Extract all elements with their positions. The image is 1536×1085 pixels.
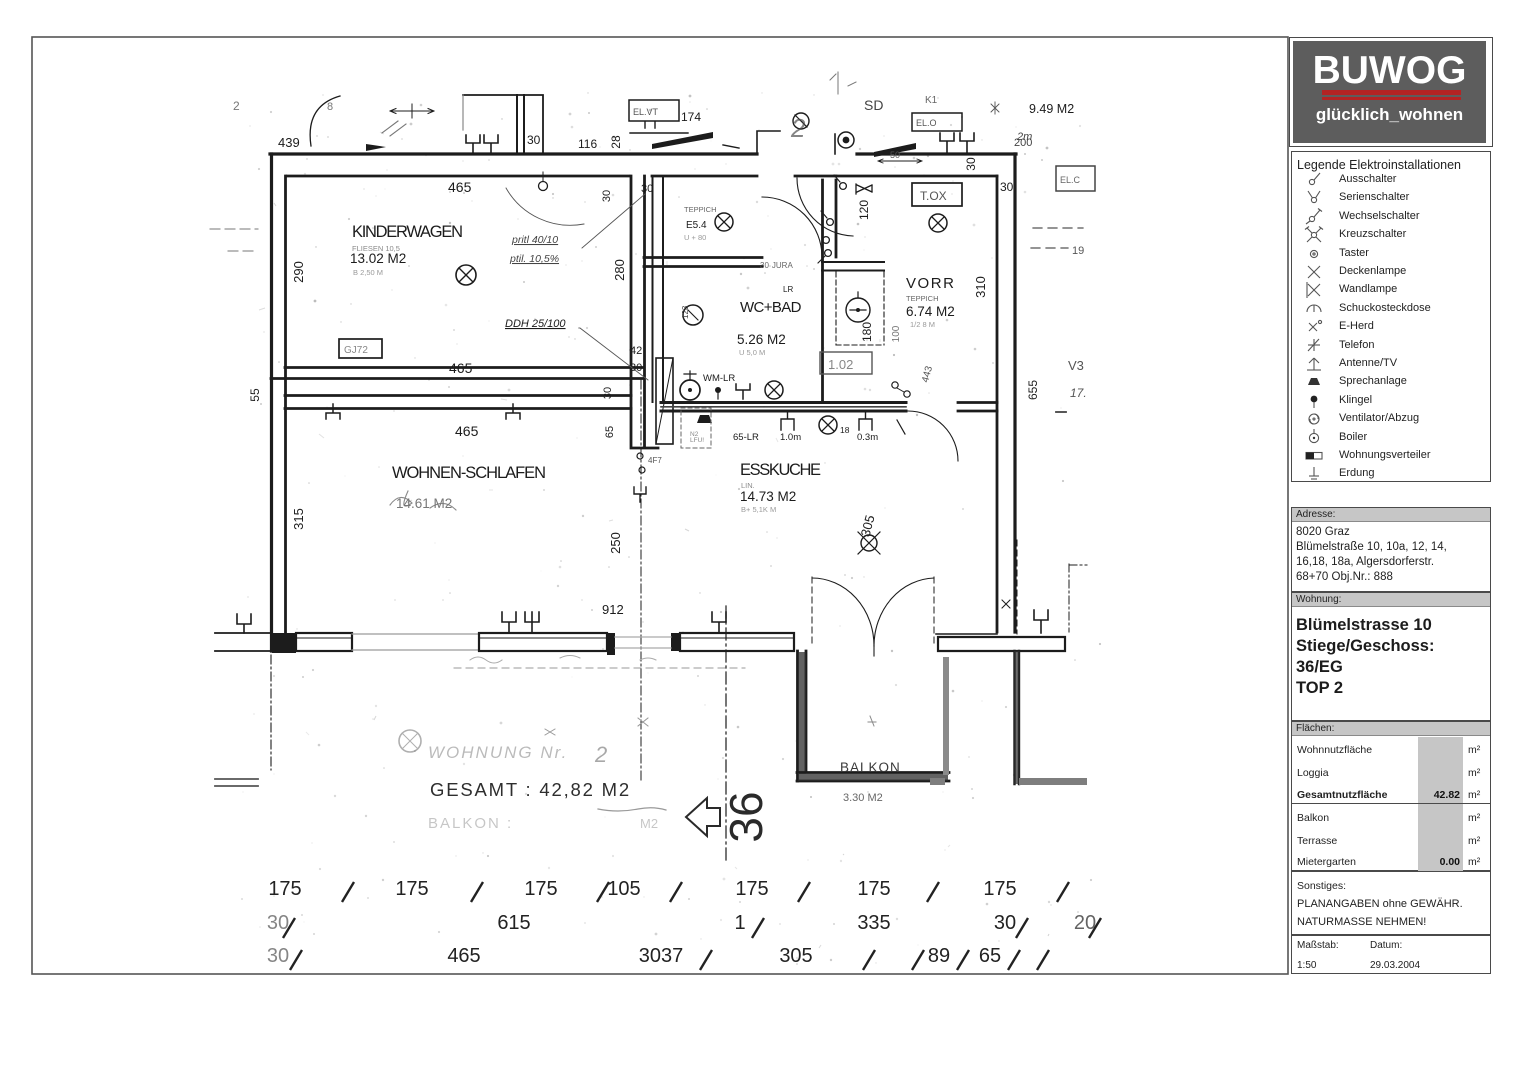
- svg-text:WM-LR: WM-LR: [703, 373, 735, 384]
- ceiling lamp corridor: [715, 213, 733, 231]
- switch chain c2: [821, 211, 833, 225]
- door arc top-left corridor: [310, 96, 340, 146]
- radiator top wall b: [484, 135, 498, 153]
- wire wc-vorr wall: [823, 180, 837, 402]
- svg-text:30: 30: [994, 912, 1016, 934]
- slash mark below kitchen door: [897, 420, 905, 434]
- faint mark left of stamp: [545, 729, 555, 735]
- svg-text:174: 174: [681, 110, 701, 124]
- wire kitchen wall right of door: [958, 403, 997, 412]
- svg-text:U 5,0 M: U 5,0 M: [739, 348, 765, 357]
- slash r3 s5: [957, 950, 969, 970]
- svg-text:250: 250: [608, 532, 623, 554]
- svg-text:200: 200: [1014, 137, 1032, 149]
- dashed top of right sill: [1016, 540, 1018, 634]
- svg-text:1.02: 1.02: [828, 357, 853, 372]
- sidebar: flaechen box: [1291, 721, 1491, 871]
- svg-text:2: 2: [594, 742, 607, 767]
- ddh pointer line: [580, 328, 648, 380]
- kinderwagen small box: [339, 339, 382, 358]
- balcony bottom wall: [797, 773, 949, 782]
- wire top outer wall left segment: [270, 152, 757, 155]
- bracket 1.0m: [781, 412, 794, 430]
- bottom right sill top line: [936, 633, 997, 635]
- svg-text:335: 335: [857, 912, 890, 934]
- svg-text:WC+BAD: WC+BAD: [740, 299, 802, 316]
- svg-text:1/2 8 M: 1/2 8 M: [910, 320, 935, 329]
- radiator bottom right: [1034, 610, 1048, 633]
- svg-text:65: 65: [979, 945, 1001, 967]
- balcony right wall grey: [943, 657, 949, 775]
- wire right outer wall: [1013, 154, 1016, 632]
- radiator window mid b: [525, 612, 539, 633]
- switch chain c3: [823, 237, 830, 244]
- scribbles above nook: [830, 72, 856, 94]
- svg-text:465: 465: [447, 945, 480, 967]
- slash r3 s3: [863, 950, 875, 970]
- ceiling lamp on kitchen wall: [765, 381, 783, 399]
- small dim under wedge: [878, 159, 922, 163]
- svg-text:310: 310: [973, 276, 988, 298]
- svg-text:8: 8: [327, 101, 333, 113]
- svg-text:3.30 M2: 3.30 M2: [843, 792, 883, 804]
- svg-text:30: 30: [964, 157, 978, 171]
- slash r1 s5: [798, 882, 810, 902]
- wire vorr niche dashed sides: [836, 272, 884, 345]
- svg-text:5.26 M2: 5.26 M2: [737, 332, 786, 347]
- svg-text:2: 2: [790, 113, 806, 143]
- svg-text:175: 175: [268, 878, 301, 900]
- stamp seal circle: [399, 730, 421, 752]
- svg-text:TEPPICH: TEPPICH: [684, 205, 717, 214]
- ceiling lamp vorr: [929, 214, 947, 232]
- svg-text:175: 175: [857, 878, 890, 900]
- sidebar: address box: [1291, 507, 1491, 592]
- radiator ws top wall a: [326, 404, 340, 419]
- faint tick balcony: [868, 716, 876, 726]
- eroded wall between windows: [352, 634, 479, 650]
- door arc entrance: [797, 178, 853, 236]
- svg-text:655: 655: [1026, 380, 1040, 400]
- slash r2 s1: [283, 918, 295, 938]
- faint eroded sill mid-right: [615, 637, 671, 648]
- bottom right stem wall: [1015, 651, 1020, 784]
- switch near entrance: [793, 113, 809, 129]
- svg-text:B+ 5,1K M: B+ 5,1K M: [741, 505, 776, 514]
- svg-text:30: 30: [641, 183, 653, 195]
- svg-text:T.OX: T.OX: [920, 189, 947, 203]
- svg-text:BALKON: BALKON: [840, 760, 901, 775]
- star at arrow end: [991, 102, 999, 114]
- svg-text:175: 175: [735, 878, 768, 900]
- svg-text:42: 42: [630, 345, 642, 357]
- wire top bump outline: [463, 95, 543, 153]
- pier between windows: [607, 633, 615, 655]
- svg-text:ptil. 10,5%: ptil. 10,5%: [509, 253, 559, 265]
- svg-text:30: 30: [602, 387, 614, 399]
- svg-text:BALKON :: BALKON :: [428, 815, 513, 832]
- svg-text:30: 30: [1000, 180, 1014, 194]
- faint scribble above wavy: [470, 656, 656, 664]
- slash r1 s1: [342, 882, 354, 902]
- svg-text:EL.O: EL.O: [916, 118, 937, 128]
- window middle: [479, 633, 607, 651]
- balcony door arc right: [874, 578, 934, 646]
- svg-text:19: 19: [1072, 245, 1084, 257]
- sidebar: sonstiges box: [1291, 871, 1491, 935]
- wc phone circle: [683, 305, 703, 325]
- slash r1 s7: [1057, 882, 1069, 902]
- door leaf tick top-left: [366, 144, 386, 151]
- svg-text:55: 55: [248, 388, 262, 402]
- slash r1 s4: [670, 882, 682, 902]
- window left: [296, 633, 352, 651]
- section arrow 36: [686, 798, 720, 836]
- slash r2 s4: [1089, 918, 1101, 938]
- svg-text:U + 80: U + 80: [684, 233, 706, 242]
- slash r3 s7: [1037, 950, 1049, 970]
- svg-text:465: 465: [449, 360, 473, 376]
- window right: [680, 633, 794, 651]
- wire kinderwagen bottom wall: [271, 368, 643, 379]
- svg-text:465: 465: [455, 423, 479, 439]
- el box top mid: [912, 113, 962, 131]
- svg-text:GJ72: GJ72: [344, 345, 368, 356]
- svg-text:TEPPICH: TEPPICH: [906, 294, 939, 303]
- dash-dot open boundary kitchen: [640, 380, 642, 782]
- svg-text:465: 465: [448, 179, 472, 195]
- svg-text:M2: M2: [640, 816, 658, 831]
- svg-text:VORR: VORR: [906, 275, 955, 292]
- svg-text:116: 116: [578, 137, 597, 151]
- svg-text:3037: 3037: [639, 945, 684, 967]
- drawing frame: [32, 37, 1288, 974]
- svg-text:50: 50: [890, 150, 900, 160]
- switch chain c1: [834, 175, 846, 189]
- stamp underline scribble: [598, 808, 666, 811]
- wire top outer wall right segment: [857, 152, 1016, 155]
- bottom left wall pier: [272, 633, 296, 653]
- svg-text:315: 315: [291, 508, 306, 530]
- dash-dot neighbor line right: [1069, 564, 1087, 632]
- svg-text:123: 123: [681, 305, 690, 319]
- dash-dot property line left: [270, 655, 272, 770]
- switch chain at shaft end: [637, 453, 645, 473]
- slash r1 s2: [471, 882, 483, 902]
- small x near right wall: [1002, 600, 1010, 608]
- fork below shaft: [634, 487, 646, 502]
- sidebar: wohnung box: [1291, 592, 1491, 721]
- svg-text:89: 89: [928, 945, 950, 967]
- pier right window left: [671, 633, 680, 651]
- svg-text:14.73 M2: 14.73 M2: [740, 489, 796, 504]
- svg-text:175: 175: [395, 878, 428, 900]
- faint wavy line above stamp: [454, 667, 745, 669]
- svg-text:30JURA: 30JURA: [760, 261, 793, 270]
- svg-text:443: 443: [920, 364, 935, 383]
- door leaf wedge corridor: [652, 132, 713, 149]
- svg-text:30: 30: [630, 362, 642, 374]
- faint box 102: [820, 352, 872, 374]
- wire wohnen-schlafen top wall: [285, 396, 631, 409]
- sidebar: BUWOG logo box: [1289, 37, 1493, 147]
- el box top left: [629, 100, 679, 121]
- svg-text:100: 100: [891, 325, 902, 342]
- entrance swing arc light: [506, 188, 584, 225]
- connector under el box: [630, 122, 739, 148]
- wire vorr niche top wall: [822, 262, 884, 271]
- bottom right grey band: [1019, 778, 1087, 785]
- wire wc top wall: [644, 258, 762, 267]
- svg-text:30: 30: [601, 190, 613, 202]
- wire top bump double wall: [517, 95, 524, 153]
- wire shaft rect: [656, 358, 673, 444]
- svg-text:9.49 M2: 9.49 M2: [1029, 102, 1074, 116]
- svg-text:65: 65: [604, 426, 616, 438]
- entrance K bell: [838, 132, 854, 148]
- svg-text:pritl 40/10: pritl 40/10: [511, 234, 558, 246]
- svg-text:1: 1: [734, 912, 745, 934]
- slash r3 s1: [290, 950, 302, 970]
- switch chain c4: [818, 250, 831, 263]
- svg-text:B 2,50 M: B 2,50 M: [353, 268, 383, 277]
- svg-text:65-LR: 65-LR: [733, 432, 759, 443]
- svg-text:18: 18: [840, 425, 850, 435]
- door leaf wedge entrance: [874, 143, 916, 157]
- slash r3 s2: [700, 950, 712, 970]
- svg-text:6.74 M2: 6.74 M2: [906, 304, 955, 319]
- radiator vorr top a: [940, 133, 954, 153]
- sidebar: legend box: [1291, 151, 1491, 482]
- wire kitchen wall fill line: [661, 406, 906, 408]
- svg-text:30: 30: [267, 945, 289, 967]
- left property dashes: [210, 229, 258, 251]
- tox box vorr: [912, 183, 962, 206]
- radiator window mid a: [502, 612, 516, 633]
- bottom left neighbor sill: [215, 633, 271, 651]
- door arc corridor-wc: [762, 197, 822, 257]
- svg-text:EL.VT: EL.VT: [633, 107, 659, 117]
- entrance nook jog lines: [757, 131, 835, 154]
- svg-text:0.3m: 0.3m: [857, 432, 878, 443]
- svg-text:1.0m: 1.0m: [780, 432, 801, 443]
- balcony door dashed jambs: [812, 577, 934, 645]
- svg-text:175: 175: [524, 878, 557, 900]
- svg-text:KINDERWAGEN: KINDERWAGEN: [352, 223, 464, 241]
- svg-text:4F7: 4F7: [648, 456, 662, 465]
- washing machine circle: [680, 371, 700, 400]
- balcony bottom grey stub: [930, 778, 945, 785]
- scribble near top arc: [382, 121, 406, 136]
- svg-text:290: 290: [291, 261, 306, 283]
- svg-text:13.02 M2: 13.02 M2: [350, 251, 406, 266]
- svg-text:K1: K1: [925, 95, 938, 106]
- wire top inner wall vorr right: [836, 175, 997, 178]
- ceiling lamp esskueche: [819, 416, 837, 434]
- bottom right sill band: [938, 637, 1065, 651]
- svg-text:305: 305: [858, 513, 878, 538]
- balcony door arc left: [812, 578, 874, 646]
- left lower sill: [215, 779, 258, 786]
- wire middle vertical wall band: [631, 176, 658, 448]
- radiator ws top wall b: [506, 404, 520, 419]
- fork symbol kitchen row: [736, 384, 750, 399]
- small switch pair right of kitchen door: [892, 382, 910, 397]
- svg-text:120: 120: [857, 200, 871, 220]
- pritl pointer line: [582, 194, 645, 248]
- svg-text:WOHNEN-SCHLAFEN: WOHNEN-SCHLAFEN: [392, 464, 547, 482]
- right column dashes: [1031, 228, 1083, 248]
- svg-text:V3: V3: [1068, 358, 1084, 373]
- balcony arc center stem: [873, 646, 875, 656]
- dimension arrow top: [390, 104, 434, 118]
- svg-text:28: 28: [609, 135, 623, 149]
- wandlampe vorr: [856, 184, 872, 194]
- crossed lamp below 305: [858, 532, 880, 554]
- wire top inner wall kinderwagen: [287, 175, 629, 178]
- radiator window left outside: [237, 614, 251, 633]
- svg-text:36: 36: [720, 791, 772, 842]
- svg-text:30: 30: [527, 133, 541, 147]
- svg-text:17.: 17.: [1070, 386, 1087, 400]
- svg-text:615: 615: [497, 912, 530, 934]
- svg-text:GESAMT : 42,82 M2: GESAMT : 42,82 M2: [430, 779, 631, 800]
- wire left outer wall: [270, 154, 273, 651]
- boiler circle in niche: [846, 298, 870, 322]
- slash r1 s3: [597, 882, 609, 902]
- svg-text:439: 439: [278, 135, 300, 150]
- wire top inner wall corridor-vorr: [652, 175, 757, 178]
- radiator top wall a: [466, 135, 480, 153]
- sprechanlage dome below wall: [697, 415, 712, 423]
- balcony left wall fill: [798, 652, 806, 774]
- scan noise speckle: [241, 92, 1101, 963]
- svg-text:WOHNUNG Nr.: WOHNUNG Nr.: [428, 743, 568, 762]
- svg-text:LR: LR: [783, 285, 793, 294]
- slash r2 s3: [1016, 918, 1028, 938]
- slash r3 s4: [912, 950, 924, 970]
- faint tick above stamp right: [638, 718, 648, 726]
- stem wall fill: [1014, 651, 1020, 784]
- section line 36: [725, 606, 727, 860]
- svg-text:EL.C: EL.C: [1060, 175, 1081, 185]
- svg-text:280: 280: [612, 259, 627, 281]
- wire shaft diagonal: [656, 358, 673, 444]
- svg-text:2: 2: [233, 99, 240, 113]
- ceiling lamp kinderwagen: [456, 265, 476, 285]
- klingel dot esskueche: [715, 387, 721, 399]
- svg-text:SD: SD: [864, 97, 883, 113]
- dashed service rect below wm: [681, 408, 711, 448]
- right column tick: [1056, 411, 1066, 413]
- slash r1 s6: [927, 882, 939, 902]
- svg-text:30: 30: [267, 912, 289, 934]
- svg-text:N2LFU!: N2LFU!: [690, 431, 704, 444]
- balcony bottom wall fill: [798, 773, 948, 781]
- scribble over ws area value: [390, 491, 456, 510]
- bracket 0.3m: [859, 412, 872, 430]
- wire left inner wall: [284, 176, 287, 633]
- svg-text:105: 105: [607, 878, 640, 900]
- wire inner jamb piece: [795, 175, 836, 178]
- radiator vorr top b: [960, 133, 974, 153]
- svg-text:175: 175: [983, 878, 1016, 900]
- svg-text:ESSKUCHE: ESSKUCHE: [740, 461, 822, 479]
- slash r3 s6: [1008, 950, 1020, 970]
- wire right inner wall: [996, 176, 999, 632]
- door stop circle at step: [539, 182, 548, 191]
- wire kitchen wall: [661, 403, 906, 412]
- balcony left wall: [798, 651, 807, 781]
- extra scan noise: [243, 101, 1082, 965]
- svg-text:E5.4: E5.4: [686, 220, 707, 231]
- wire duct wall second band: [653, 176, 664, 402]
- slash r2 s2: [752, 918, 764, 938]
- svg-text:912: 912: [602, 602, 624, 617]
- sidebar: massstab box: [1291, 935, 1491, 974]
- radiator window right: [712, 612, 726, 633]
- el box right column: [1056, 166, 1095, 191]
- svg-text:14.61 M2: 14.61 M2: [396, 496, 452, 511]
- door arc vorr-esskueche: [908, 411, 958, 461]
